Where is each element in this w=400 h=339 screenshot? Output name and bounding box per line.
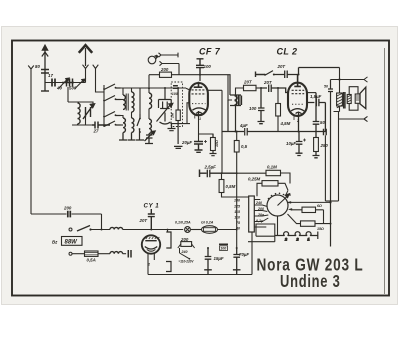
svg-text:Undine 3: Undine 3 [280, 271, 341, 291]
coupling cap 1.5uF to output [307, 99, 325, 132]
svg-text:240: 240 [255, 201, 262, 205]
disc contact dots [268, 193, 285, 200]
output transformer primary winding [337, 93, 343, 106]
resistor 200 dropper [181, 242, 192, 247]
svg-text:4µF: 4µF [239, 123, 248, 128]
wire S4 to coil C [121, 124, 124, 126]
inner right frame shadow line [384, 48, 386, 294]
resistor 15R horizontal [301, 221, 316, 226]
wire fork2 down to band switch bus [96, 72, 105, 92]
tank top wire [68, 102, 93, 106]
wire switch to choke [91, 229, 111, 231]
left rail wire down [30, 72, 32, 214]
wire S1 to coil A [121, 88, 124, 95]
screen stub [307, 92, 316, 94]
svg-text:20T: 20T [263, 80, 272, 85]
pickup terminal bar [199, 170, 201, 178]
CY1 pins [148, 253, 154, 260]
svg-text:1: 1 [308, 238, 310, 242]
svg-text:0,5M: 0,5M [226, 184, 236, 189]
svg-text:100: 100 [249, 106, 257, 111]
band switch bus [98, 85, 110, 125]
heater link top [166, 230, 171, 249]
screen wire right [208, 90, 223, 173]
svg-text:10Ω: 10Ω [215, 140, 219, 147]
svg-text:20T: 20T [139, 218, 148, 223]
output transformer secondary winding [347, 95, 351, 104]
resistor 0.25M horizontal [262, 181, 278, 186]
svg-text:17: 17 [48, 73, 53, 78]
svg-text:15Ω: 15Ω [317, 227, 324, 231]
tube CF7 envelope [189, 83, 208, 115]
svg-text:15µF: 15µF [214, 256, 224, 261]
wire cluster to tank [67, 87, 69, 102]
tuning gang capacitor (osc section) [159, 88, 172, 124]
cathode resistor [211, 138, 216, 151]
electrolytic 15uF [207, 247, 209, 249]
shield return wire [170, 123, 190, 125]
heater loop 2 [288, 232, 300, 236]
+ mark [204, 140, 207, 143]
capacitor 27 [92, 122, 110, 129]
heater chain end bar [311, 232, 318, 240]
cathode wire down [148, 232, 252, 275]
fuse Gl 0,2A [202, 226, 218, 234]
svg-text:Bz: Bz [52, 240, 58, 245]
vertical feed line to chassis [174, 124, 183, 149]
svg-text:Gl 0,2A: Gl 0,2A [201, 221, 214, 225]
wire grid bus from coils to oscillator [123, 88, 186, 114]
heater link bottom [166, 262, 171, 272]
wire y214 from left rail [31, 214, 102, 230]
resistor 0.5M vertical [219, 180, 224, 193]
transformer core [344, 92, 345, 109]
svg-text:240: 240 [181, 250, 188, 254]
svg-text:2: 2 [284, 238, 287, 242]
capacitor 50 feedback [313, 93, 320, 138]
cathode to ground chain [198, 115, 200, 141]
resistor 200 (osc anode feed) [160, 72, 172, 77]
grid leak to left [187, 103, 189, 124]
wire A2 to input line [85, 72, 87, 83]
pilot lamp 0,1/0,25A [185, 227, 191, 233]
tank coil [78, 103, 81, 124]
mains switch [77, 226, 90, 232]
input wire horizontal [45, 82, 86, 84]
selector stubs [254, 200, 268, 228]
capacitor 20T top [285, 68, 340, 79]
plug fork right [364, 77, 368, 82]
wire to 0.1M [237, 172, 266, 174]
tank trimmer capacitor [83, 104, 95, 119]
mains terminal 2 [69, 252, 72, 255]
svg-text:1,5µF: 1,5µF [310, 94, 322, 99]
resistor 0.1M horizontal [266, 170, 281, 175]
switch S4 [104, 121, 121, 127]
secondary loop wires [349, 87, 358, 111]
CL2 pin 2 mark [293, 116, 295, 120]
end bar below antenna lead [41, 90, 49, 92]
potentiometer / selector disc [267, 195, 288, 216]
svg-text:6Ω: 6Ω [317, 204, 322, 208]
capacitor 100 to ground [258, 88, 265, 124]
svg-text:100: 100 [220, 247, 226, 251]
wire 0.25M into disc [286, 191, 288, 195]
capacitor 200 series [68, 211, 71, 218]
wire S2 to coil A [121, 99, 124, 101]
electrolytic 4uF on B+ line [222, 100, 262, 136]
ground coil D [128, 133, 136, 141]
svg-text:2: 2 [296, 238, 299, 242]
antenna A1 (small) [44, 47, 46, 91]
wire bottom-right return [248, 241, 275, 243]
svg-text:125: 125 [234, 205, 241, 209]
pickup jack B [160, 61, 180, 74]
consumption box 88W [62, 237, 83, 246]
svg-text:0,1M: 0,1M [267, 165, 277, 170]
wire coil B top to bus [131, 88, 133, 92]
speaker [355, 94, 360, 103]
capacitor 20T above rectifier [148, 209, 155, 230]
svg-text:200: 200 [63, 206, 72, 211]
svg-text:2,5µF: 2,5µF [204, 165, 217, 170]
svg-text:40: 40 [235, 227, 240, 231]
grid wire from band bus [186, 88, 190, 90]
svg-text:20T: 20T [243, 80, 252, 85]
antenna A2 (large) [85, 48, 87, 66]
disc wiper arrow [278, 194, 290, 206]
svg-text:0,25M: 0,25M [248, 177, 261, 182]
core bars [126, 94, 128, 111]
lower wire with fork [334, 106, 368, 122]
B+ rail [262, 131, 325, 133]
coil B (RF coil secondary) [132, 92, 135, 112]
plug fork under antenna A2 [83, 65, 89, 72]
coil A (RF coil) [123, 95, 125, 109]
dial pointer symbol [148, 56, 156, 64]
resistor 20T [244, 85, 257, 90]
capacitor 50 at transformer [328, 80, 333, 247]
svg-text:150: 150 [234, 199, 240, 203]
capacitor 100 flat [219, 243, 228, 245]
switch S2 [104, 96, 121, 102]
svg-text:100: 100 [204, 64, 212, 69]
svg-text:80: 80 [35, 64, 40, 69]
plug fork 2 [93, 65, 99, 72]
tube CL2 envelope [288, 83, 307, 116]
wire top bus to transformer [331, 68, 365, 94]
border frame [12, 41, 389, 296]
mains choke 1 [110, 227, 123, 229]
antenna terminal fork (left) [28, 66, 34, 73]
svg-text:40: 40 [56, 86, 62, 91]
IF transformer coil [235, 96, 237, 106]
pickup jack A [159, 53, 179, 58]
capacitor 80 in antenna lead [41, 70, 49, 74]
wire with capacitor 2.5uF [200, 170, 237, 178]
svg-text:20µF: 20µF [181, 140, 192, 145]
capacitor 100 (top stub) [196, 59, 204, 75]
electrolytic 20uF [194, 142, 203, 153]
wire IFT top to resistor 20T [236, 88, 244, 95]
switch S3 [104, 112, 121, 118]
CF7 grids (dashed) [192, 90, 207, 94]
switch S5 to ground [136, 114, 144, 140]
oscillator coil L2 [149, 119, 151, 133]
switch S1 [104, 84, 121, 90]
coupling coil cluster with trimmer arrows [62, 79, 74, 87]
svg-text:0,1/0,25A: 0,1/0,25A [175, 221, 191, 225]
cap at end of B+ rail [324, 129, 327, 136]
electrolytic 10uF [296, 132, 303, 156]
disc outputs right [288, 194, 331, 203]
svg-text:88W: 88W [65, 240, 79, 246]
svg-text:≈110-220V: ≈110-220V [179, 260, 195, 264]
terminal capacitor bars [128, 250, 131, 258]
wire coil B bottom to coil D [131, 112, 133, 118]
voltage selector strip [249, 196, 255, 232]
svg-text:CL 2: CL 2 [277, 47, 298, 57]
resistor 0.5 vertical [234, 141, 239, 153]
svg-text:0,5A: 0,5A [87, 258, 96, 263]
trimmer capacitor below L2 [145, 131, 156, 141]
svg-text:10µF: 10µF [286, 141, 296, 146]
ground coil A [119, 133, 127, 141]
svg-text:50: 50 [324, 85, 328, 89]
transformer primary bottom down [339, 112, 341, 202]
tank bottom wire [72, 117, 92, 125]
CF7 anode bar [194, 82, 203, 87]
coil D [132, 118, 134, 132]
dashed shield box around oscillator transformer [171, 82, 182, 127]
heater loop 3 [300, 232, 311, 236]
grid cap 20T and switch feed [256, 72, 266, 78]
svg-text:500: 500 [69, 86, 77, 91]
svg-text:250: 250 [320, 143, 329, 148]
fuse 0.5A [85, 251, 99, 256]
CL2 anode bar [294, 75, 301, 87]
oscillator coil L1 [149, 93, 152, 109]
svg-text:CF 7: CF 7 [199, 47, 221, 57]
svg-text:200: 200 [180, 237, 189, 242]
svg-text:20a: 20a [257, 213, 264, 217]
svg-text:1: 1 [199, 117, 201, 121]
svg-text:27: 27 [93, 129, 99, 134]
svg-text:2: 2 [296, 119, 299, 123]
svg-text:200: 200 [257, 207, 264, 211]
wire 200 resistor [149, 75, 200, 93]
svg-text:100: 100 [172, 92, 178, 96]
CF7 cathode [192, 108, 206, 115]
wire S3 to coil C [121, 116, 124, 119]
anode wire to coupling [200, 75, 230, 95]
CF7 pin 1 mark [194, 116, 196, 119]
coil C (wave band coil) [123, 118, 125, 132]
CL2 grids [292, 90, 305, 93]
svg-text:0,5: 0,5 [241, 144, 248, 149]
ground in shield [168, 124, 176, 131]
CL2 cathode [291, 109, 304, 132]
electrolytic 70uF [236, 247, 238, 249]
svg-text:115: 115 [234, 210, 241, 214]
tap switch 110-220V [180, 248, 190, 259]
IF transformer capacitor [239, 96, 242, 106]
svg-text:70µF: 70µF [239, 252, 249, 257]
mains choke 2 [110, 252, 123, 254]
capacitor 17 [52, 79, 55, 87]
resistor 2M [176, 110, 180, 121]
svg-text:110: 110 [234, 216, 240, 220]
heater loop 1 [275, 232, 289, 236]
svg-text:0,1µ: 0,1µ [256, 219, 263, 223]
loop wire below disc [256, 224, 275, 242]
coupling capacitor 20T to CL2 grid [261, 85, 288, 93]
grid tap wire [228, 75, 232, 100]
svg-text:2M: 2M [171, 112, 175, 119]
capacitor 100 in shield [173, 86, 178, 89]
svg-text:200: 200 [160, 67, 169, 72]
resistor 0.5M vertical (AVC) [276, 104, 281, 117]
svg-text:2: 2 [147, 263, 150, 267]
svg-text:CY 1: CY 1 [144, 203, 160, 210]
resistor 6R horizontal [302, 207, 316, 212]
rectifier tube CY1 [142, 235, 160, 253]
dial lamp chain [277, 216, 279, 236]
svg-text:20T: 20T [277, 64, 286, 69]
svg-text:4,5M: 4,5M [280, 121, 291, 126]
svg-text:50: 50 [320, 120, 325, 125]
resistor 250 vertical [314, 138, 319, 152]
